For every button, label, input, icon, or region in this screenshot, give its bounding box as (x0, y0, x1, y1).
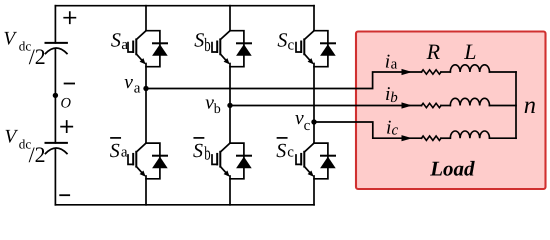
left DC bus wire (middle segment through node O) (54, 49, 56, 143)
label Sc (277, 30, 294, 54)
capacitor C1 (top Vdc/2) (46, 43, 67, 54)
inductor L (phase b) (450, 98, 489, 105)
freewheel diode Dc (top) (314, 31, 336, 67)
label va (124, 72, 141, 97)
capacitor C2 (bottom Vdc/2) (46, 143, 67, 154)
freewheel diode Da (top) (146, 31, 168, 67)
svg-text:S: S (194, 30, 204, 52)
svg-text:S: S (111, 30, 121, 52)
svg-text:/2: /2 (29, 142, 46, 167)
wire phase a (va to load) (146, 72, 422, 89)
freewheel diode Db-bar (bottom) (230, 143, 252, 179)
label Vdc/2 (top) (3, 28, 45, 68)
svg-text:n: n (524, 92, 536, 119)
label vc (295, 108, 311, 134)
svg-text:S: S (110, 140, 120, 162)
svg-text:b: b (214, 102, 221, 117)
wire leg B top (rail to collector) (229, 6, 231, 31)
label O (61, 95, 72, 111)
svg-text:a: a (121, 37, 128, 53)
wire phase b (vb to load) (230, 105, 422, 107)
left DC bus wire (lower segment) (54, 150, 56, 205)
wire leg A middle (emitter to lower collector) (145, 64, 147, 144)
label Sb (194, 30, 210, 57)
IGBT switch Sb (top) (212, 31, 230, 65)
svg-text:V: V (3, 28, 17, 49)
wire a (L to neutral bus) (490, 71, 517, 73)
resistor R (phase b) (422, 103, 442, 107)
wire b (L to neutral bus) (490, 105, 517, 107)
neutral bus wire (515, 72, 517, 138)
IGBT switch Sc (top) (296, 31, 314, 65)
svg-text:v: v (124, 72, 133, 93)
svg-text:R: R (426, 39, 441, 64)
IGBT switch Sb-bar (bottom) (212, 143, 230, 177)
svg-text:b: b (390, 90, 398, 106)
freewheel diode Da-bar (bottom) (146, 143, 168, 179)
wire leg C middle (emitter to lower collector) (313, 64, 315, 144)
label ib (385, 84, 398, 106)
svg-text:b: b (204, 143, 210, 164)
current arrow ib (402, 102, 413, 108)
inductor L (phase a) (450, 65, 489, 72)
svg-text:c: c (304, 118, 311, 134)
resistor R (phase c) (422, 136, 442, 140)
label Sa-bar (110, 138, 128, 162)
node vb (227, 103, 232, 108)
svg-text:i: i (385, 52, 390, 73)
label ia (385, 52, 398, 73)
wire leg B middle (emitter to lower collector) (229, 64, 231, 144)
svg-text:V: V (5, 126, 19, 147)
polarity - (bottom left) (60, 194, 69, 196)
svg-text:O: O (61, 95, 72, 111)
IGBT switch Sa (top) (128, 31, 146, 65)
current arrow ic (402, 135, 413, 141)
load box (356, 32, 546, 190)
svg-text:a: a (134, 80, 141, 96)
wire leg C top (rail to collector) (313, 6, 315, 31)
wire b (R to L) (441, 105, 450, 107)
IGBT switch Sa-bar (bottom) (128, 143, 146, 177)
svg-text:b: b (204, 35, 210, 56)
wire c (R to L) (441, 137, 450, 139)
node va (143, 86, 148, 91)
polarity - (above node O) (65, 83, 75, 85)
svg-text:S: S (193, 140, 203, 162)
wire leg A top (rail to collector) (145, 6, 147, 31)
svg-text:Load: Load (429, 157, 475, 181)
polarity + (top capacitor) (64, 12, 75, 23)
label Sa (111, 30, 128, 54)
label Sc-bar (276, 138, 294, 162)
svg-text:a: a (391, 57, 398, 73)
svg-text:c: c (287, 145, 294, 161)
wire leg A bottom (emitter to rail) (145, 176, 147, 205)
node vc (311, 119, 316, 124)
node O (53, 93, 58, 98)
svg-text:S: S (276, 140, 286, 162)
svg-text:c: c (392, 122, 399, 138)
wire leg C bottom (emitter to rail) (313, 176, 315, 205)
wire phase c (vc to load) (314, 122, 422, 138)
top DC rail wire (55, 5, 314, 7)
svg-text:c: c (288, 37, 295, 53)
resistor R (phase a) (422, 70, 442, 74)
bottom DC rail wire (55, 204, 314, 206)
left DC bus wire (upper segment) (54, 6, 56, 43)
inductor L (phase c) (450, 131, 489, 138)
label vb (205, 93, 221, 118)
wire leg B bottom (emitter to rail) (229, 176, 231, 205)
label ic (386, 118, 399, 139)
current arrow ia (402, 69, 413, 75)
freewheel diode Dc-bar (bottom) (314, 143, 336, 179)
svg-text:a: a (121, 144, 128, 160)
label Sb-bar (193, 138, 211, 165)
label Vdc/2 (bottom) (5, 126, 46, 166)
svg-text:S: S (277, 30, 287, 52)
svg-text:/2: /2 (29, 44, 46, 69)
wire c (L to neutral bus) (490, 137, 517, 139)
IGBT switch Sc-bar (bottom) (296, 143, 314, 177)
wire a (R to L) (441, 71, 450, 73)
polarity + (bottom capacitor) (61, 121, 72, 132)
svg-text:L: L (463, 39, 476, 64)
freewheel diode Db (top) (230, 31, 252, 67)
